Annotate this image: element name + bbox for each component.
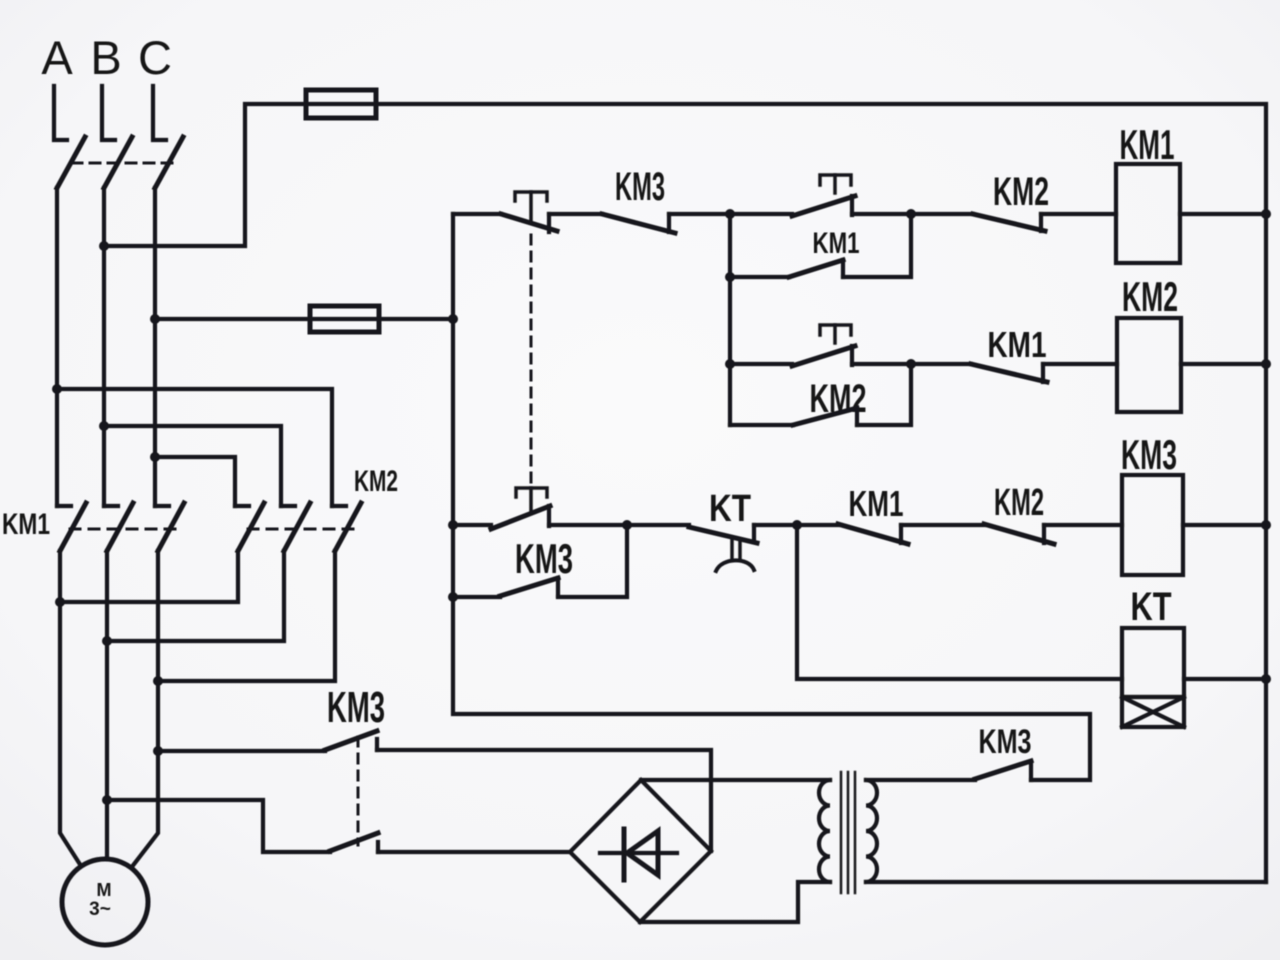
transformer T primary winding bbox=[819, 780, 830, 882]
node junction rung2 a bbox=[725, 359, 735, 369]
svg-text:KM3: KM3 bbox=[979, 723, 1032, 761]
disconnect switch QS pole C bbox=[153, 86, 183, 188]
wire phase B upper bbox=[102, 188, 106, 506]
wire phase C to motor bbox=[131, 551, 158, 868]
contact KM3 aux (NO) transformer feed bbox=[975, 723, 1032, 780]
node junction selfhold KM3 bus bbox=[448, 592, 458, 602]
disconnect switch QS pole A bbox=[54, 86, 85, 188]
wire A to KM2 pole3 top bbox=[57, 389, 332, 506]
node junction rung2 right bus bbox=[1261, 359, 1271, 369]
contact KM3 NC rung1 bbox=[602, 165, 730, 233]
wire selfhold KM2 branch bbox=[728, 364, 732, 425]
node junction rung3 bus bbox=[448, 520, 458, 530]
wire rung3 start bbox=[453, 523, 491, 527]
node junction C brake tap bbox=[153, 746, 163, 756]
wire B to KM2 pole2 top bbox=[104, 426, 281, 506]
contact KM3 brake pole 2 bbox=[330, 833, 570, 852]
svg-text:3~: 3~ bbox=[89, 899, 111, 920]
pushbutton SB1 stop (NC) bbox=[501, 192, 602, 232]
contact KM1 main pole B bbox=[104, 503, 133, 551]
svg-text:KM3: KM3 bbox=[327, 683, 385, 732]
fuse FU2 bbox=[310, 306, 379, 332]
node junction rung3 a bbox=[622, 520, 632, 530]
pushbutton SB4 start reverse (NO) bbox=[730, 325, 911, 366]
contact KM3 brake pole 1 bbox=[325, 731, 711, 851]
svg-text:M: M bbox=[97, 880, 112, 900]
svg-text:KM1: KM1 bbox=[988, 324, 1047, 365]
coil KM1 bbox=[1116, 121, 1266, 263]
wire C tap to KM3 brake 1 bbox=[158, 749, 325, 753]
wire secondary bottom to right bus bbox=[866, 880, 1266, 884]
wire bridge bottom to transformer primary bbox=[640, 882, 830, 922]
node junction control bus feed bbox=[448, 314, 458, 324]
svg-text:KM2: KM2 bbox=[994, 482, 1044, 524]
contact KM2 main pole 2 bbox=[107, 503, 310, 641]
node junction B feed bbox=[99, 241, 109, 251]
wire secondary top to KM3 aux bbox=[866, 778, 975, 782]
coil KM2 bbox=[1117, 273, 1266, 412]
wire top rail to right bus bbox=[376, 104, 1266, 882]
svg-text:KT: KT bbox=[1131, 585, 1172, 629]
node junction rung4 right bus bbox=[1261, 674, 1271, 684]
svg-text:KM3: KM3 bbox=[1121, 431, 1177, 478]
svg-text:KM1: KM1 bbox=[2, 508, 50, 541]
node junction rung3 right bus bbox=[1261, 520, 1271, 530]
wire bridge top to transformer primary bbox=[641, 778, 830, 782]
wire phase B to motor bbox=[105, 551, 109, 858]
node junction B lower bbox=[102, 636, 112, 646]
svg-text:KM2: KM2 bbox=[993, 170, 1049, 214]
contact KM2 main pole 3 bbox=[158, 503, 361, 681]
node junction selfhold KM1 bbox=[725, 272, 735, 282]
pushbutton SB1 lower contact (NO) bbox=[491, 488, 627, 529]
svg-text:KM2: KM2 bbox=[354, 465, 398, 498]
coil KT bbox=[1122, 585, 1266, 697]
svg-text:KM2: KM2 bbox=[1122, 273, 1178, 320]
node junction rung3 b bbox=[792, 520, 802, 530]
motor M bbox=[62, 859, 148, 945]
svg-text:KM3: KM3 bbox=[515, 535, 573, 582]
wire C-phase to fuse FU2 bbox=[155, 317, 310, 321]
contact KM2 NO selfhold bbox=[730, 364, 911, 425]
svg-text:KM1: KM1 bbox=[1120, 121, 1175, 168]
disconnect switch QS pole B bbox=[102, 86, 132, 188]
contact KM1 main gang link bbox=[70, 528, 178, 531]
contact KT NC delayed bbox=[627, 488, 797, 571]
svg-text:KM3: KM3 bbox=[615, 165, 665, 209]
contact KM2 rung3 bbox=[984, 482, 1122, 544]
pushbutton gang link dashed bbox=[530, 235, 533, 486]
coil KM3 bbox=[1121, 431, 1266, 575]
svg-text:B: B bbox=[90, 31, 121, 84]
pushbutton SB2 start (NO) bbox=[730, 175, 911, 216]
svg-text:C: C bbox=[138, 31, 172, 84]
node junction rung1 right bus bbox=[1261, 209, 1271, 219]
disconnect switch QS gang link bbox=[72, 162, 172, 165]
wire rung1 start bbox=[453, 212, 501, 216]
wire C to KM2 pole1 top bbox=[155, 457, 235, 506]
timer element KT delay box bbox=[1122, 697, 1184, 727]
contact KM1 NO selfhold bbox=[730, 214, 911, 277]
svg-text:KM1: KM1 bbox=[813, 227, 860, 260]
bridge rectifier VC bbox=[570, 780, 711, 922]
contact KM3 brake gang link bbox=[357, 737, 360, 845]
svg-text:KM1: KM1 bbox=[849, 483, 904, 524]
wire phase A upper bbox=[55, 188, 59, 506]
contact KM1 main pole C bbox=[155, 503, 184, 551]
contact KM1 main pole A bbox=[57, 503, 86, 551]
node junction rung2 b bbox=[906, 359, 916, 369]
contact KM2 main pole 1 bbox=[60, 503, 264, 602]
node junction A lower bbox=[55, 597, 65, 607]
wire phase A to motor bbox=[60, 551, 81, 866]
node junction B brake tap bbox=[102, 795, 112, 805]
wire fuse FU2 to control bus bbox=[379, 317, 453, 321]
node junction C lower bbox=[153, 676, 163, 686]
wire B-phase to fuse FU1 bbox=[104, 104, 306, 246]
wire rung4 feed bbox=[797, 525, 1122, 679]
diode symbol bbox=[600, 829, 677, 880]
contact KM2 NC rung1 bbox=[911, 170, 1116, 231]
fuse FU1 bbox=[306, 90, 376, 118]
node junction rung1 a bbox=[725, 209, 735, 219]
node junction C cross bbox=[150, 452, 160, 462]
node junction C feed bbox=[150, 314, 160, 324]
node junction A cross bbox=[52, 384, 62, 394]
wire B tap to KM3 brake 2 bbox=[107, 800, 330, 852]
wire left control bus bbox=[453, 214, 1090, 780]
svg-text:KT: KT bbox=[709, 488, 751, 530]
svg-text:A: A bbox=[41, 31, 73, 84]
contact KM1 rung3 bbox=[797, 483, 984, 544]
contact KM2 main gang link bbox=[248, 528, 355, 531]
transformer T core bbox=[841, 772, 855, 893]
contact KM1 NC rung2 bbox=[911, 324, 1117, 382]
node junction rung1 b bbox=[906, 209, 916, 219]
contact KM3 NO selfhold bbox=[453, 525, 627, 597]
wire selfhold KM1 branch bbox=[728, 214, 732, 277]
node junction B cross bbox=[99, 421, 109, 431]
wire phase C upper bbox=[153, 188, 157, 506]
wire rung2 feed bbox=[728, 277, 732, 364]
transformer T secondary winding bbox=[866, 780, 877, 882]
